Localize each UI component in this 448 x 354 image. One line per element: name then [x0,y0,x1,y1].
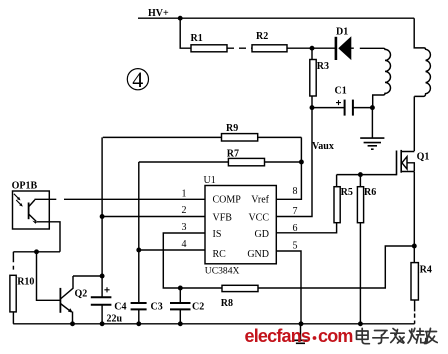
wire Q2 collector to C4 [73,275,102,277]
svg-text:R1: R1 [191,33,203,44]
capacitor C2 [170,288,204,324]
wire pin1 COMP to optocoupler [35,198,206,200]
svg-text:IS: IS [213,229,222,240]
wire pin5 GND down [276,251,301,324]
node junction dot Q2 base branch [34,249,39,254]
transistor Q1 MOSFET [397,150,430,175]
node junction dot Q1 source/R4 [412,244,417,249]
ground under GND pin [292,324,309,344]
svg-text:GD: GD [255,229,269,240]
resistor R9 [103,123,302,141]
node HV+ label [148,8,169,19]
op-amp U1 chip body [204,175,277,277]
svg-text:com: com [318,326,353,346]
wire R1 branch down [180,18,191,48]
svg-text:4: 4 [132,67,143,92]
svg-text:5: 5 [293,241,298,252]
resistor R3 [310,48,329,107]
svg-text:2: 2 [182,205,187,216]
node junction dot RC [136,248,141,253]
svg-text:22u: 22u [107,314,123,325]
inductor secondary winding [414,48,430,97]
svg-text:Vaux: Vaux [312,141,334,152]
svg-text:UC384X: UC384X [205,266,240,277]
wire dashed R1-R2 [227,47,252,49]
svg-text:R2: R2 [256,31,268,42]
svg-text:1: 1 [182,189,187,200]
text 电子发烧友 watermark [357,328,438,343]
svg-text:U1: U1 [204,175,216,186]
ground under C1 [360,108,384,150]
wire RC net vertical R7/C3 [138,162,140,303]
node junction dot Q2 emitter rail [70,321,75,326]
node junction dot C2 rail [178,321,183,326]
wire winding to Q1 drain [413,96,415,151]
node junction dot R6 rail [358,321,363,326]
svg-text:D1: D1 [336,27,348,38]
chip pin name GD [255,229,269,240]
resistor R10 [10,252,35,324]
wire Q1 source down [413,172,415,246]
wire VFB net vertical [101,137,103,276]
pin number 2 [182,205,187,216]
svg-text:R8: R8 [221,298,233,309]
wire bottom ground rail [13,323,414,325]
svg-text:C2: C2 [192,301,204,312]
resistor R4 [411,246,432,300]
resistor R7 [139,148,302,165]
wire D1 to primary winding [351,47,384,49]
node junction dot C1/winding/gnd [370,105,375,110]
wire Vaux vertical to VCC [276,108,312,217]
resistor R1 [191,33,228,52]
capacitor C4 [91,276,127,325]
resistor R2 [252,31,287,52]
node junction dot R3/C1/Vaux [310,105,315,110]
pin number 1 [182,189,187,200]
capacitor C3 [131,301,163,324]
node junction dot R6 gate [358,172,363,177]
node junction dot R7/pin8 [299,160,304,165]
wire gate line R5/R6 to Q1 [337,174,397,176]
pin number 8 [293,186,298,197]
node junction dot R2/R3/D1 [310,46,315,51]
wire OP1B emitter [37,222,61,252]
node junction dot C3 rail [136,321,141,326]
svg-text:R3: R3 [317,61,329,72]
wire Q1 source to R8 [258,246,414,288]
svg-text:OP1B: OP1B [12,181,38,192]
svg-text:RC: RC [213,249,227,260]
svg-text:R4: R4 [420,264,432,275]
wire pin3 IS [163,233,205,288]
svg-text:GND: GND [247,249,269,260]
symbol circled 4 [127,67,148,92]
chip pin name VCC [248,213,269,224]
svg-text:COMP: COMP [213,195,242,206]
inductor primary winding [373,48,391,107]
node junction dot C4 rail [100,321,105,326]
chip pin name COMP [213,195,242,206]
pin number 3 [182,222,187,233]
node Vaux label [312,141,334,152]
pin number 6 [293,223,298,234]
svg-text:Vref: Vref [251,195,269,206]
chip pin name Vref [251,195,269,206]
svg-text:C4: C4 [114,302,126,313]
optocoupler OP1B [12,181,50,230]
pin number 4 [182,239,187,250]
capacitor C1 [312,86,372,116]
svg-text:4: 4 [182,239,187,250]
svg-text:R9: R9 [226,123,238,134]
node junction dot VFB [100,214,105,219]
chip pin name IS [213,229,222,240]
pin number 7 [293,206,298,217]
node junction dot HV+/R1 [178,16,183,21]
wire pin6 GD to R5 [276,223,336,233]
wire top HV+ rail [138,17,414,19]
svg-text:VCC: VCC [248,213,269,224]
node junction dot IS/R8/C2 [178,286,183,291]
svg-text:Q2: Q2 [75,289,88,300]
svg-text:R7: R7 [227,148,239,159]
svg-text:7: 7 [293,206,298,217]
wire Q2 base [37,252,61,300]
resistor R6 [357,175,376,324]
pin number 5 [293,241,298,252]
logo elecfans.com watermark [245,326,353,346]
transistor Q2 [60,276,87,324]
wire top rail right corner down [414,18,424,48]
resistor R5 [334,175,353,223]
chip pin name VFB [213,213,233,224]
chip pin name RC [213,249,227,260]
svg-text:HV+: HV+ [148,8,169,19]
wire R2 to D1 [287,47,336,49]
svg-text:R6: R6 [364,187,376,198]
wire R9/R7 to pin8 [276,137,301,199]
node junction dot C4/VFB [100,274,105,279]
wire R4 dashed to rail [414,300,416,324]
chip pin name GND [247,249,269,260]
wire emitter rail to R10 [13,251,60,253]
svg-text:elecfans: elecfans [245,326,311,346]
wire pin4 RC [139,249,205,251]
svg-text:VFB: VFB [213,213,233,224]
svg-text:3: 3 [182,222,187,233]
node junction dot GND rail [299,321,304,326]
svg-text:C1: C1 [335,86,347,97]
svg-text:8: 8 [293,186,298,197]
svg-text:R10: R10 [17,277,34,288]
wire pin2 VFB [102,216,205,218]
svg-text:C3: C3 [151,301,163,312]
resistor R8 [180,285,258,309]
svg-text:R5: R5 [341,187,353,198]
svg-text:Q1: Q1 [417,152,430,163]
diode D1 [336,27,351,61]
